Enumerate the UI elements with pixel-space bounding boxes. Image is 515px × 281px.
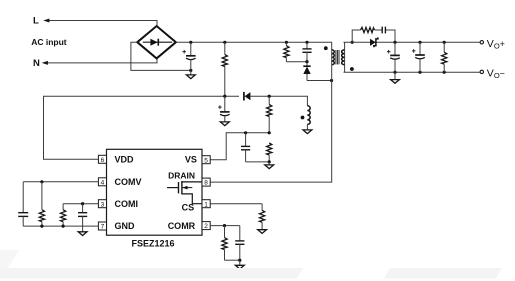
resistor R comi bbox=[61, 204, 66, 226]
node Vo- terminal bbox=[480, 70, 483, 73]
capacitor C vdd electrolytic bbox=[218, 96, 230, 122]
node diode-snubber-C junction bbox=[393, 41, 396, 44]
pin 5 box bbox=[202, 156, 210, 165]
wire clamp return to drain bbox=[307, 80, 332, 82]
node botc2 bbox=[418, 71, 421, 74]
capacitor C comi bbox=[78, 204, 87, 226]
aux winding bbox=[301, 106, 311, 130]
node clamp-drain junction bbox=[330, 79, 333, 82]
pin 8 box bbox=[202, 178, 210, 187]
diode D vdd (points left) bbox=[244, 92, 251, 101]
pin 6 box bbox=[98, 155, 106, 164]
wire GND rail bbox=[23, 225, 98, 227]
svg-text:6: 6 bbox=[101, 157, 105, 164]
resistor R load bbox=[442, 42, 447, 72]
svg-text:COMV: COMV bbox=[115, 177, 142, 187]
ground below aux winding bbox=[303, 130, 312, 134]
wire VS junction line bbox=[210, 133, 269, 160]
node comi-cap junction bbox=[81, 202, 84, 205]
pin 3 box bbox=[98, 200, 106, 209]
wire COMI line bbox=[63, 203, 98, 205]
svg-text:VDD: VDD bbox=[115, 155, 135, 165]
wire clamp bottom bbox=[286, 61, 307, 63]
clamp capacitor bbox=[302, 42, 311, 61]
ground below vs divider bbox=[268, 162, 270, 165]
bridge rectifier BR1 bbox=[137, 26, 176, 58]
transformer T1 bbox=[324, 42, 354, 72]
node vs-cap junction bbox=[244, 131, 247, 134]
wire VDD loop from pin 6 bbox=[44, 96, 240, 159]
node Vo+ terminal bbox=[480, 41, 483, 44]
capacitor C output 1 electrolytic bbox=[387, 42, 400, 72]
node snubber left junction bbox=[351, 41, 354, 44]
node comr bottom junction bbox=[238, 259, 241, 262]
wire COMR line bbox=[210, 225, 240, 227]
node topr bbox=[443, 41, 446, 44]
node clamp junction bbox=[305, 60, 308, 63]
wire drain line bbox=[210, 50, 331, 182]
wire L line with arrow bbox=[45, 21, 157, 27]
ground below comr bbox=[239, 260, 241, 265]
node bus-clampR bbox=[285, 41, 288, 44]
wire main HV bus bbox=[176, 41, 332, 43]
node vdd-Rstartup junction bbox=[223, 95, 226, 98]
svg-text:VS: VS bbox=[185, 155, 197, 165]
op-amp U1 FSEZ1216 body bbox=[107, 149, 203, 235]
node vs-divider junction bbox=[268, 131, 271, 134]
resistor R comr bbox=[222, 226, 227, 261]
svg-text:N: N bbox=[33, 58, 40, 69]
wire secondary top rail bbox=[344, 41, 481, 43]
node bulk cap negative junction bbox=[189, 69, 192, 72]
wire secondary snubber frame bbox=[352, 30, 395, 42]
pin 1 box bbox=[202, 200, 210, 209]
watermark band bbox=[0, 250, 515, 279]
resistor R vs lower bbox=[267, 143, 272, 162]
ground secondary bbox=[394, 72, 396, 79]
pin 4 box bbox=[98, 178, 106, 187]
ground on GND rail bbox=[82, 226, 84, 232]
pin 7 box bbox=[98, 222, 106, 231]
secondary winding bbox=[342, 50, 345, 65]
svg-text:L: L bbox=[33, 16, 39, 27]
wire COMV line bbox=[23, 181, 98, 183]
node bus-C1 bbox=[189, 41, 192, 44]
capacitor C comv bbox=[18, 182, 28, 226]
svg-text:DRAIN: DRAIN bbox=[168, 170, 195, 180]
resistor R cs sense bbox=[260, 204, 265, 230]
svg-text:COMI: COMI bbox=[115, 199, 139, 209]
svg-text:GND: GND bbox=[115, 221, 136, 231]
primary dot bbox=[324, 46, 328, 50]
secondary dot bbox=[350, 67, 354, 71]
pin 2 box bbox=[202, 222, 210, 231]
node gnd-Rcomv bbox=[40, 225, 43, 228]
node comr-R junction bbox=[223, 224, 226, 227]
svg-text:2: 2 bbox=[204, 223, 208, 230]
node comv-R junction bbox=[40, 180, 43, 183]
capacitor C comr bbox=[235, 226, 244, 261]
node topc2 bbox=[418, 41, 421, 44]
svg-text:1: 1 bbox=[204, 201, 208, 208]
ground below C vdd bbox=[220, 122, 229, 126]
wire N line with arrow bbox=[44, 58, 158, 63]
snubber resistor (horizontal) bbox=[361, 27, 375, 32]
ground below R cs bbox=[258, 230, 267, 234]
resistor R startup bbox=[222, 42, 227, 96]
svg-text:4: 4 bbox=[101, 179, 105, 186]
node vs bottom junction bbox=[268, 160, 271, 163]
wire CS line bbox=[210, 203, 262, 205]
clamp resistor bbox=[284, 42, 289, 61]
svg-text:8: 8 bbox=[204, 180, 208, 187]
node botr bbox=[443, 71, 446, 74]
ground below bulk capacitor bbox=[190, 70, 192, 75]
svg-text:5: 5 bbox=[204, 157, 208, 164]
capacitor C vs bbox=[241, 133, 250, 162]
snubber capacitor (horizontal) bbox=[382, 27, 385, 34]
wire vs divider bottom bbox=[246, 161, 270, 163]
svg-text:COMR: COMR bbox=[168, 221, 196, 231]
svg-text:FSEZ1216: FSEZ1216 bbox=[131, 239, 174, 249]
resistor R vs upper bbox=[267, 96, 272, 133]
transistor Q internal MOSFET bbox=[167, 181, 202, 204]
node bus-Rstartup bbox=[223, 41, 226, 44]
node vdd-divider junction bbox=[268, 95, 271, 98]
capacitor C1 bulk electrolytic bbox=[182, 42, 195, 70]
output rectifier diode D1 (schottky) bbox=[370, 37, 378, 47]
node gnd-Rcomi bbox=[62, 225, 65, 228]
svg-text:AC input: AC input bbox=[31, 37, 67, 47]
wire comr bottom bbox=[225, 259, 240, 261]
wire secondary bottom rail bbox=[344, 71, 481, 73]
node bus-clampC bbox=[305, 41, 308, 44]
clamp diode bbox=[303, 62, 310, 81]
svg-text:7: 7 bbox=[101, 224, 105, 231]
core bbox=[336, 50, 339, 64]
svg-text:3: 3 bbox=[101, 201, 105, 208]
primary winding bbox=[331, 42, 333, 50]
wire aux line right part bbox=[251, 96, 308, 106]
resistor R comv bbox=[39, 182, 44, 226]
wire bridge negative return bbox=[131, 42, 191, 70]
node botc1 bbox=[393, 71, 396, 74]
capacitor C output 2 electrolytic bbox=[412, 42, 425, 72]
